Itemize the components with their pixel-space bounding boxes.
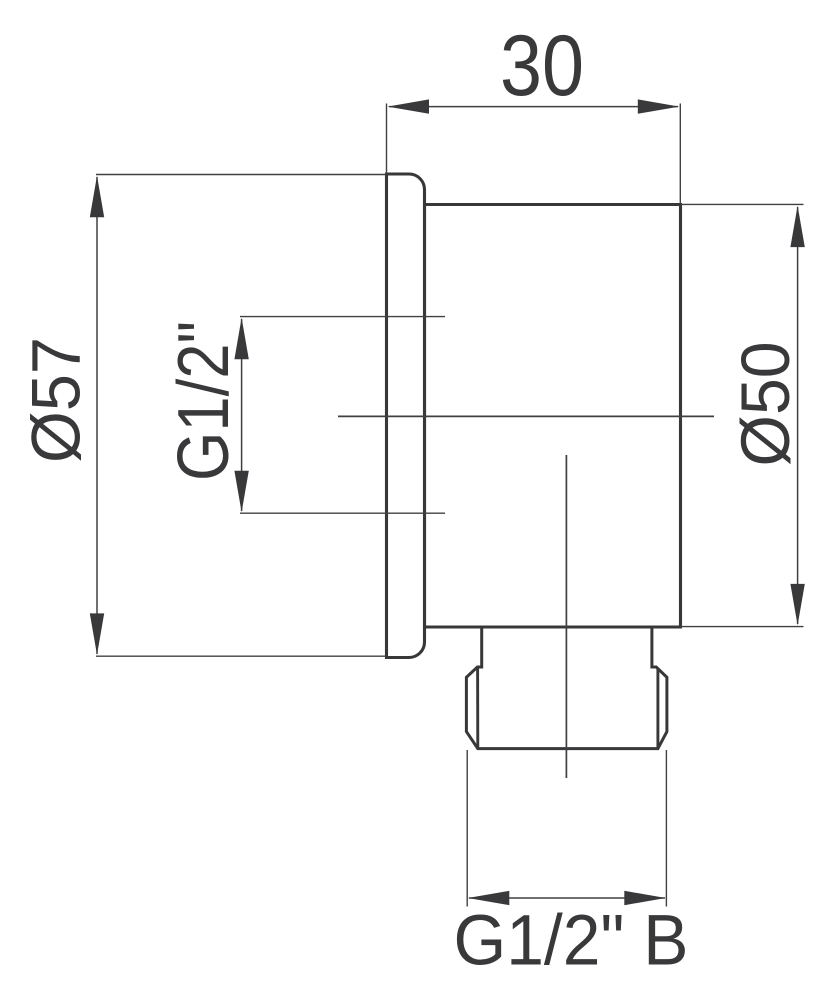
dim diameter 57: bottom arrowhead	[90, 613, 104, 655]
wall flange outline (57mm)	[387, 174, 425, 658]
dim diameter 50: top arrowhead	[790, 206, 804, 248]
svg-text:G1/2": G1/2"	[164, 321, 244, 481]
thread root line right	[656, 668, 659, 749]
dim G1/2 inner thread: dimension line	[241, 319, 243, 511]
center line vertical	[565, 455, 567, 778]
dim G1/2 inner thread: top arrowhead	[234, 318, 248, 360]
threaded nipple outline (G1/2 B)	[466, 627, 667, 749]
dim G1/2 B: left arrowhead	[468, 891, 510, 905]
dim diameter 50: bottom extension line	[681, 626, 804, 628]
dim G1/2 inner thread: top extension line	[240, 316, 445, 318]
dim diameter 57: top arrowhead	[90, 176, 104, 218]
dim G1/2 B: left extension line	[466, 750, 468, 907]
dim G1/2 inner thread: bottom arrowhead	[234, 471, 248, 513]
svg-text:Ø50: Ø50	[727, 342, 804, 467]
thread root line left	[476, 667, 479, 749]
dim diameter 50: dimension line	[797, 207, 799, 624]
dim diameter 57: dimension line	[96, 177, 98, 654]
dim G1/2 B: right extension line	[665, 750, 667, 907]
dim diameter 50: bottom arrowhead	[790, 584, 804, 626]
dim 30: right extension line	[679, 104, 681, 205]
svg-text:30: 30	[500, 18, 584, 114]
center line horizontal	[338, 415, 714, 417]
dim G1/2 B: dimension line	[469, 897, 665, 899]
dim diameter 57: bottom extension line	[96, 655, 386, 657]
dim diameter 50: top extension line	[681, 203, 804, 205]
svg-text:Ø57: Ø57	[18, 337, 95, 463]
dim G1/2 B: right arrowhead	[624, 891, 666, 905]
dim diameter 57: top extension line	[96, 174, 386, 176]
dim G1/2 inner thread: bottom extension line	[240, 512, 445, 514]
dim 30: left arrowhead	[388, 99, 430, 113]
dim 30: right arrowhead	[638, 99, 680, 113]
svg-text:G1/2" B: G1/2" B	[454, 902, 689, 981]
dim 30: left extension line	[386, 104, 388, 175]
body outline (50mm cylinder side view)	[425, 205, 681, 628]
dim 30: dimension line	[389, 106, 678, 108]
